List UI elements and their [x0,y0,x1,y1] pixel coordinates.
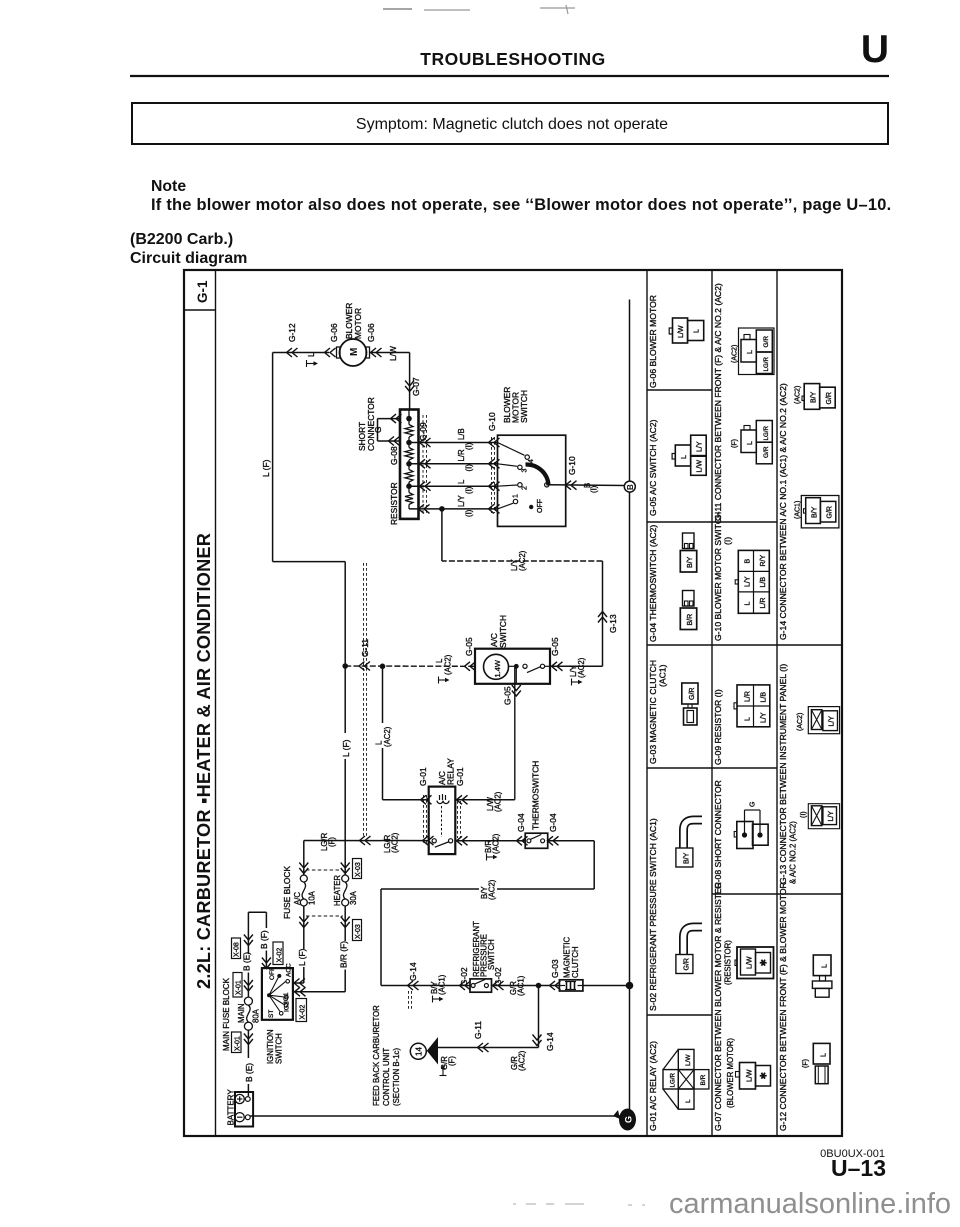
svg-text:RELAY: RELAY [446,758,456,785]
svg-text:G-01 A/C RELAY (AC2): G-01 A/C RELAY (AC2) [648,1041,658,1131]
svg-text:L (F): L (F) [297,948,307,966]
relay coil [437,794,449,837]
G-12 connector upper [812,955,832,997]
svg-text:G: G [624,1116,634,1123]
body connection circle B [624,481,635,492]
svg-text:IG1: IG1 [283,992,290,1003]
wire L(AC2) down to A/C relay coil [383,666,432,804]
svg-text:R/Y: R/Y [760,555,767,567]
connector label G-04 right [548,813,559,845]
switch terminal 3 [518,465,529,472]
switch terminal 1 [513,494,520,504]
wire B/R(AC2) relay to thermoswitch [455,836,527,845]
wire label L/Y (AC2) top [510,550,527,571]
svg-text:A/C: A/C [293,892,302,905]
svg-text:1: 1 [513,494,520,498]
svg-text:✱: ✱ [759,959,769,967]
fuse labels A/C 10A [293,890,317,905]
component label BLOWER MOTOR SWITCH [502,387,529,423]
G-10 connector grid [735,550,769,613]
svg-text:14: 14 [415,1047,424,1056]
svg-text:MAIN FUSE BLOCK: MAIN FUSE BLOCK [222,977,231,1051]
svg-text:U–13: U–13 [831,1155,886,1181]
connector boundary G-01 dashed [424,795,461,845]
G-06 connector pins [669,318,703,343]
svg-text:(AC2): (AC2) [732,345,739,363]
svg-text:G-10: G-10 [567,456,577,475]
wire B(F) battery to ignition [248,912,271,968]
svg-text:L/R: L/R [745,691,752,702]
svg-text:(AC1): (AC1) [517,975,526,996]
svg-text:L/B: L/B [761,692,768,703]
G-14 connector (AC2) [795,384,836,410]
svg-text:(I): (I) [723,537,733,545]
svg-text:G/R: G/R [763,446,770,458]
battery [235,1092,253,1127]
svg-text:LG/R: LG/R [763,426,770,441]
G-12 connector (F) [803,1043,831,1083]
resistor output wires to blower switch [409,438,500,513]
wire L feed to blower motor [273,348,336,357]
S-02 pigtail G/R [676,927,702,974]
svg-text:G-11 CONNECTOR BETWEEN FRONT (: G-11 CONNECTOR BETWEEN FRONT (F) & A/C N… [713,283,723,521]
blower motor switch box [498,435,566,526]
svg-text:G-05: G-05 [503,686,513,705]
svg-text:OFF: OFF [269,967,276,980]
fuse block dashed boundary [306,870,343,916]
wire thermoswitch to B/Y junction [548,841,595,889]
svg-text:L: L [745,602,752,606]
G-08 connector detail [734,802,768,849]
thermoswitch contacts [527,835,545,843]
svg-text:OFF: OFF [537,499,544,513]
svg-text:L/B: L/B [760,577,767,588]
svg-text:(AC2): (AC2) [391,832,400,853]
G-09 connector grid [734,685,770,727]
svg-text:MOTOR: MOTOR [353,308,363,339]
fuse HEATER 30A [342,875,349,882]
svg-text:10A: 10A [308,890,317,905]
svg-text:B: B [745,559,752,564]
svg-text:X-03: X-03 [355,924,362,939]
svg-text:B/Y: B/Y [684,852,691,864]
wire label L (AC2) vertical [375,723,393,748]
svg-text:G-04: G-04 [516,813,526,832]
boxed label X-03 lower [353,920,362,941]
ignition position labels [268,963,293,1018]
svg-text:IG2: IG2 [284,1001,291,1012]
symptom box [132,103,888,144]
svg-text:(AC1): (AC1) [658,664,668,687]
wire L/Y(AC2) from A/C switch [442,509,607,671]
svg-text:G: G [373,426,383,433]
G-13 connector (I) [801,804,840,829]
svg-text:(AC1): (AC1) [795,501,802,519]
svg-text:G-01: G-01 [455,767,465,786]
earth bus from battery negative [250,1115,620,1117]
switch rotor arc [526,464,549,485]
connector label G-05 bottom [503,685,521,705]
feedback unit terminal 14 [410,1043,426,1059]
fuse A/C 10A [300,875,307,882]
svg-text:L/W: L/W [388,346,398,361]
svg-text:B: B [626,484,635,490]
wire label B (F) [259,928,270,951]
svg-text:L: L [685,1099,692,1103]
wire L/W from motor to resistor [370,348,415,410]
component label IGNITION SWITCH [266,1029,284,1064]
wire label B (I) [583,483,599,493]
wire label B/R (AC2) [484,833,501,860]
grid row line y1015 col1 [647,1014,712,1016]
switch terminal 2 [518,483,529,490]
svg-text:G-06: G-06 [329,323,339,342]
grid column line x712 [711,270,713,1136]
S-02 pigtail B/Y [676,820,702,867]
svg-text:B (E): B (E) [242,952,252,971]
svg-text:MAIN: MAIN [237,1004,246,1024]
cell G-13 CONNECTOR BETWEEN INSTRUMENT PANEL (I) and A/C NO.2 (AC2) [778,664,798,884]
svg-text:(AC2): (AC2) [795,386,802,404]
connector boundary G-14 dashed [409,991,412,1010]
component label MAGNETIC CLUTCH [563,936,581,978]
svg-text:L: L [822,964,829,968]
cell G-07 CONNECTOR BETWEEN BLOWER MOTOR and RESISTER [713,882,735,1131]
svg-text:L: L [306,352,316,357]
svg-text:80A: 80A [252,1008,261,1023]
G-11 connector (AC2) [732,328,775,375]
grid row line y522 col1-2 [647,521,777,523]
svg-text:X-01: X-01 [236,980,243,995]
svg-text:L (F): L (F) [341,739,351,757]
svg-text:G/R: G/R [827,506,834,518]
wire B(I) to body earth B [549,481,624,490]
svg-text:L: L [457,479,466,484]
svg-text:L: L [747,350,754,354]
wire label G/R (F) [440,1056,457,1076]
svg-text:LG/R: LG/R [670,1073,677,1088]
junction L(F) / A-C branch [342,663,348,669]
svg-text:G-14 CONNECTOR BETWEEN A/C NO.: G-14 CONNECTOR BETWEEN A/C NO.1 (AC1) & … [778,383,788,640]
connector boundary G-10 dashed [492,437,495,513]
svg-text:L (F): L (F) [261,459,271,477]
svg-text:(F): (F) [328,837,337,847]
component label FEED BACK CARBURETOR CONTROL UNIT [372,1005,401,1106]
svg-text:carmanualsonline.info: carmanualsonline.info [669,1188,951,1220]
svg-text:(AC2): (AC2) [383,726,392,747]
svg-text:RESISTOR: RESISTOR [389,482,399,525]
svg-text:(I): (I) [465,486,474,494]
wire label LG/R (F) [320,832,337,851]
svg-text:(F): (F) [448,1056,457,1066]
svg-text:(AC2): (AC2) [518,1050,527,1071]
svg-text:X-03: X-03 [355,862,362,877]
cell G-03 MAGNETIC CLUTCH (AC1) [648,660,668,764]
resistor block [400,410,419,519]
switch terminal 4 [525,455,535,463]
svg-text:X-08: X-08 [234,942,241,957]
wire labels L/B L/R L L/Y (I) [457,428,474,517]
wire B/Y(AC1) to pressure switch [381,981,471,990]
svg-text:ACC: ACC [286,963,293,977]
G-07 connector blower motor side [736,1063,771,1090]
wire label LG/R (AC2) [383,832,400,853]
svg-text:X-02: X-02 [277,948,284,963]
component label BLOWER MOTOR [344,303,363,339]
svg-text:G/R: G/R [689,688,696,700]
svg-text:G-06 BLOWER MOTOR: G-06 BLOWER MOTOR [648,295,658,388]
svg-text:4: 4 [528,459,535,463]
wire label G/R (AC2) [510,1050,527,1071]
svg-text:B/Y: B/Y [811,391,818,403]
refrigerant pressure switch box [470,979,492,992]
wire label B (E) lower [244,1058,255,1084]
svg-text:LG/R: LG/R [763,357,770,372]
svg-text:CLUTCH: CLUTCH [571,946,580,978]
svg-text:X-02: X-02 [300,1005,307,1020]
svg-text:TROUBLESHOOTING: TROUBLESHOOTING [420,49,605,69]
svg-text:(I): (I) [465,442,474,450]
svg-text:1.4W: 1.4W [493,659,502,677]
svg-text:L: L [694,329,701,333]
wire label L [306,352,318,367]
svg-text:L: L [745,717,752,721]
svg-text:SWITCH: SWITCH [519,390,529,423]
header rule [130,75,889,77]
wire G/R down from pressure switch junction [438,986,542,1053]
svg-text:L: L [747,441,754,445]
svg-text:L/Y: L/Y [697,441,704,452]
svg-text:30A: 30A [349,890,358,905]
svg-text:G-11: G-11 [360,639,370,657]
svg-text:L/Y: L/Y [828,811,835,822]
svg-text:THERMOSWITCH: THERMOSWITCH [531,761,541,830]
wire G/R(AC1) [492,981,561,990]
grid row line y768 col1-2 [647,767,777,769]
svg-text:B (F): B (F) [259,930,269,949]
svg-text:L/W: L/W [697,460,704,473]
G-14 connector (AC1) [795,496,839,528]
svg-text:G-14: G-14 [408,962,418,981]
svg-text:S-02 REFRIGERANT PRESSURE SWIT: S-02 REFRIGERANT PRESSURE SWITCH (AC1) [648,818,658,1011]
svg-text:G-11: G-11 [473,1021,483,1039]
svg-text:L/Y: L/Y [761,712,768,723]
svg-text:(AC2): (AC2) [444,654,453,675]
feedback unit arrow [427,1037,438,1065]
grid row line y390 col1 [647,389,712,391]
svg-text:(AC2): (AC2) [494,791,503,812]
svg-text:G-08: G-08 [389,446,399,465]
junction L/Y tap [439,506,445,512]
boxed label X-01 lower [232,1032,242,1053]
svg-text:U: U [861,28,889,71]
svg-text:& A/C NO.2 (AC2): & A/C NO.2 (AC2) [789,821,798,884]
svg-text:G-08 SHORT CONNECTOR: G-08 SHORT CONNECTOR [713,780,723,889]
svg-text:X-01: X-01 [235,1036,242,1051]
svg-text:(I): (I) [590,485,599,493]
magnetic clutch [559,980,583,991]
svg-text:G-10: G-10 [487,412,497,431]
svg-text:M: M [349,348,360,356]
ignition switch contacts [267,974,290,1015]
svg-text:L/W: L/W [747,956,754,969]
boxed label X-01 upper [233,973,242,998]
svg-text:G-03 MAGNETIC CLUTCH: G-03 MAGNETIC CLUTCH [648,660,658,764]
svg-text:L/Y: L/Y [457,494,466,507]
boxed label X-02 lower [296,999,307,1022]
svg-text:FEED BACK CARBURETOR: FEED BACK CARBURETOR [372,1005,381,1106]
svg-text:G-06: G-06 [366,323,376,342]
svg-text:(I): (I) [801,811,808,818]
junction earth bus [626,982,634,990]
svg-text:G-09 RESISTOR (I): G-09 RESISTOR (I) [713,689,723,765]
relay contact [432,839,453,848]
svg-text:G/R: G/R [763,336,770,348]
G-04 connector B/R [680,591,696,630]
svg-text:Symptom: Magnetic clutch does: Symptom: Magnetic clutch does not operat… [356,116,668,133]
boxed label X-08 [232,938,241,959]
svg-text:3: 3 [522,469,529,473]
OFF position [529,499,544,513]
wire LG/R fuse to relay contact [304,836,434,845]
A/C switch box [475,649,550,684]
svg-text:CONTROL UNIT: CONTROL UNIT [382,1048,391,1106]
G-1 index box [184,280,216,310]
grid column line x777 [776,270,778,1136]
component label REFRIGERANT PRESSURE SWITCH [472,921,496,977]
svg-text:✱: ✱ [759,1072,769,1080]
svg-text:(F): (F) [803,1059,810,1068]
fuse labels MAIN 80A [237,1004,261,1024]
G-13 connector (AC2) [797,707,840,734]
component label SHORT CONNECTOR [357,397,376,451]
svg-text:(AC2): (AC2) [518,550,527,571]
svg-text:G/R: G/R [684,958,691,970]
wire label L/Y (AC2) right [569,657,586,685]
svg-text:G-14: G-14 [545,1032,555,1051]
svg-text:(B2200 Carb.): (B2200 Carb.) [130,231,233,248]
wire L(F) below A/C fuse [293,906,308,988]
svg-text:L: L [821,1053,828,1057]
svg-text:ST: ST [268,1010,275,1018]
wire label B/Y (AC1) [430,974,447,1002]
A/C relay box [429,787,456,855]
svg-text:L/Y: L/Y [829,716,836,727]
svg-text:L/R: L/R [457,449,466,462]
scan specks top edge [383,5,575,14]
svg-text:B/Y: B/Y [812,506,819,518]
svg-text:G-03: G-03 [550,959,560,978]
svg-text:B/Y: B/Y [687,556,694,568]
svg-text:SWITCH: SWITCH [275,1033,284,1064]
svg-text:(AC2): (AC2) [797,713,804,731]
grid row line y645 all cols [647,644,842,646]
svg-text:G-13: G-13 [608,614,618,633]
svg-text:(RESISTOR): (RESISTOR) [724,940,733,985]
A/C switch internal contacts [509,664,551,684]
wire label L (F) lower [341,733,353,759]
G-07 connector resistor side [735,947,774,979]
connector boundary G-11 dashed [364,563,367,838]
wire label L (AC2) [435,654,453,683]
wire body earth bus vertical [629,300,631,1117]
cell G-10 BLOWER MOTOR SWITCH (I) [713,512,733,641]
svg-text:(AC2): (AC2) [488,879,497,900]
svg-text:B/R (F): B/R (F) [339,941,349,968]
ground symbol G [613,1109,636,1131]
svg-text:SWITCH: SWITCH [487,939,496,970]
blower motor M [337,339,370,366]
G-05 connector pins [672,435,706,475]
wire heater fuse vertical [293,863,350,997]
title strip divider [215,270,217,1136]
wire label B/Y (AC2) [479,877,497,901]
thermoswitch box [525,833,548,848]
svg-text:G-07 CONNECTOR BETWEEN BLOWER: G-07 CONNECTOR BETWEEN BLOWER MOTOR & RE… [713,882,723,1131]
svg-text:CONNECTOR: CONNECTOR [366,397,376,451]
G-11 connector (F) [732,421,773,464]
wire B/Y(AC2) [381,889,594,986]
svg-text:G-10 BLOWER MOTOR SWITCH: G-10 BLOWER MOTOR SWITCH [713,512,723,641]
pressure switch contacts [471,979,488,987]
svg-text:(F): (F) [732,439,739,448]
svg-text:G-12: G-12 [287,323,297,342]
svg-text:2: 2 [522,486,529,490]
switch output contact [545,483,549,487]
wire clutch to earth bus [583,985,630,987]
svg-text:HEATER: HEATER [333,875,342,906]
svg-text:(BLOWER MOTOR): (BLOWER MOTOR) [726,1038,735,1108]
fuse MAIN 80A [244,997,252,1005]
wire B(E) battery feed [244,912,253,997]
A/C switch lamp 1.4W [484,654,509,679]
G-01 connector cross [663,1049,709,1109]
short connector jumper G-08 [378,414,402,445]
wire label B/R (F) [339,941,350,970]
component label A/C SWITCH [489,615,508,648]
svg-text:Circuit diagram: Circuit diagram [130,250,247,267]
boxed label X-02 upper [273,942,283,965]
diagram outer frame [184,270,842,1136]
wire L/W(AC2) relay to A/C switch [455,666,515,804]
svg-text:(I): (I) [465,509,474,517]
svg-text:G-01: G-01 [418,767,428,786]
svg-text:G: G [750,802,757,807]
svg-text:L/W: L/W [685,1054,692,1066]
svg-text:G-13 CONNECTOR BETWEEN INSTRUM: G-13 CONNECTOR BETWEEN INSTRUMENT PANEL … [778,664,788,884]
specks near watermark [513,1204,645,1205]
wire label B (E) upper [242,952,253,973]
svg-text:G-02: G-02 [459,967,469,986]
svg-text:L/Y: L/Y [745,576,752,587]
G-03 connector pins [682,683,698,725]
wire B(E) to battery [244,1030,253,1096]
grid column line x647 [646,270,648,1136]
svg-text:L/R: L/R [760,598,767,609]
svg-text:G-1: G-1 [195,280,210,303]
svg-text:G-04: G-04 [548,813,558,832]
wire label L/W (AC2) [486,791,503,812]
svg-text:If the blower motor also does: If the blower motor also does not operat… [151,196,891,214]
wire label G/R (AC1) [509,975,526,996]
wire L(F) vertical from blower feed [273,353,346,876]
svg-text:FUSE BLOCK: FUSE BLOCK [282,866,292,919]
svg-text:L/W: L/W [747,1069,754,1082]
wire label L (F) fuse [297,948,308,967]
svg-text:2.2L: CARBURETOR ▪HEATER & AI: 2.2L: CARBURETOR ▪HEATER & AIR CONDITION… [194,533,214,989]
svg-text:G-05 A/C SWITCH (AC2): G-05 A/C SWITCH (AC2) [648,419,658,516]
svg-text:(SECTION B-1c): (SECTION B-1c) [392,1048,401,1106]
